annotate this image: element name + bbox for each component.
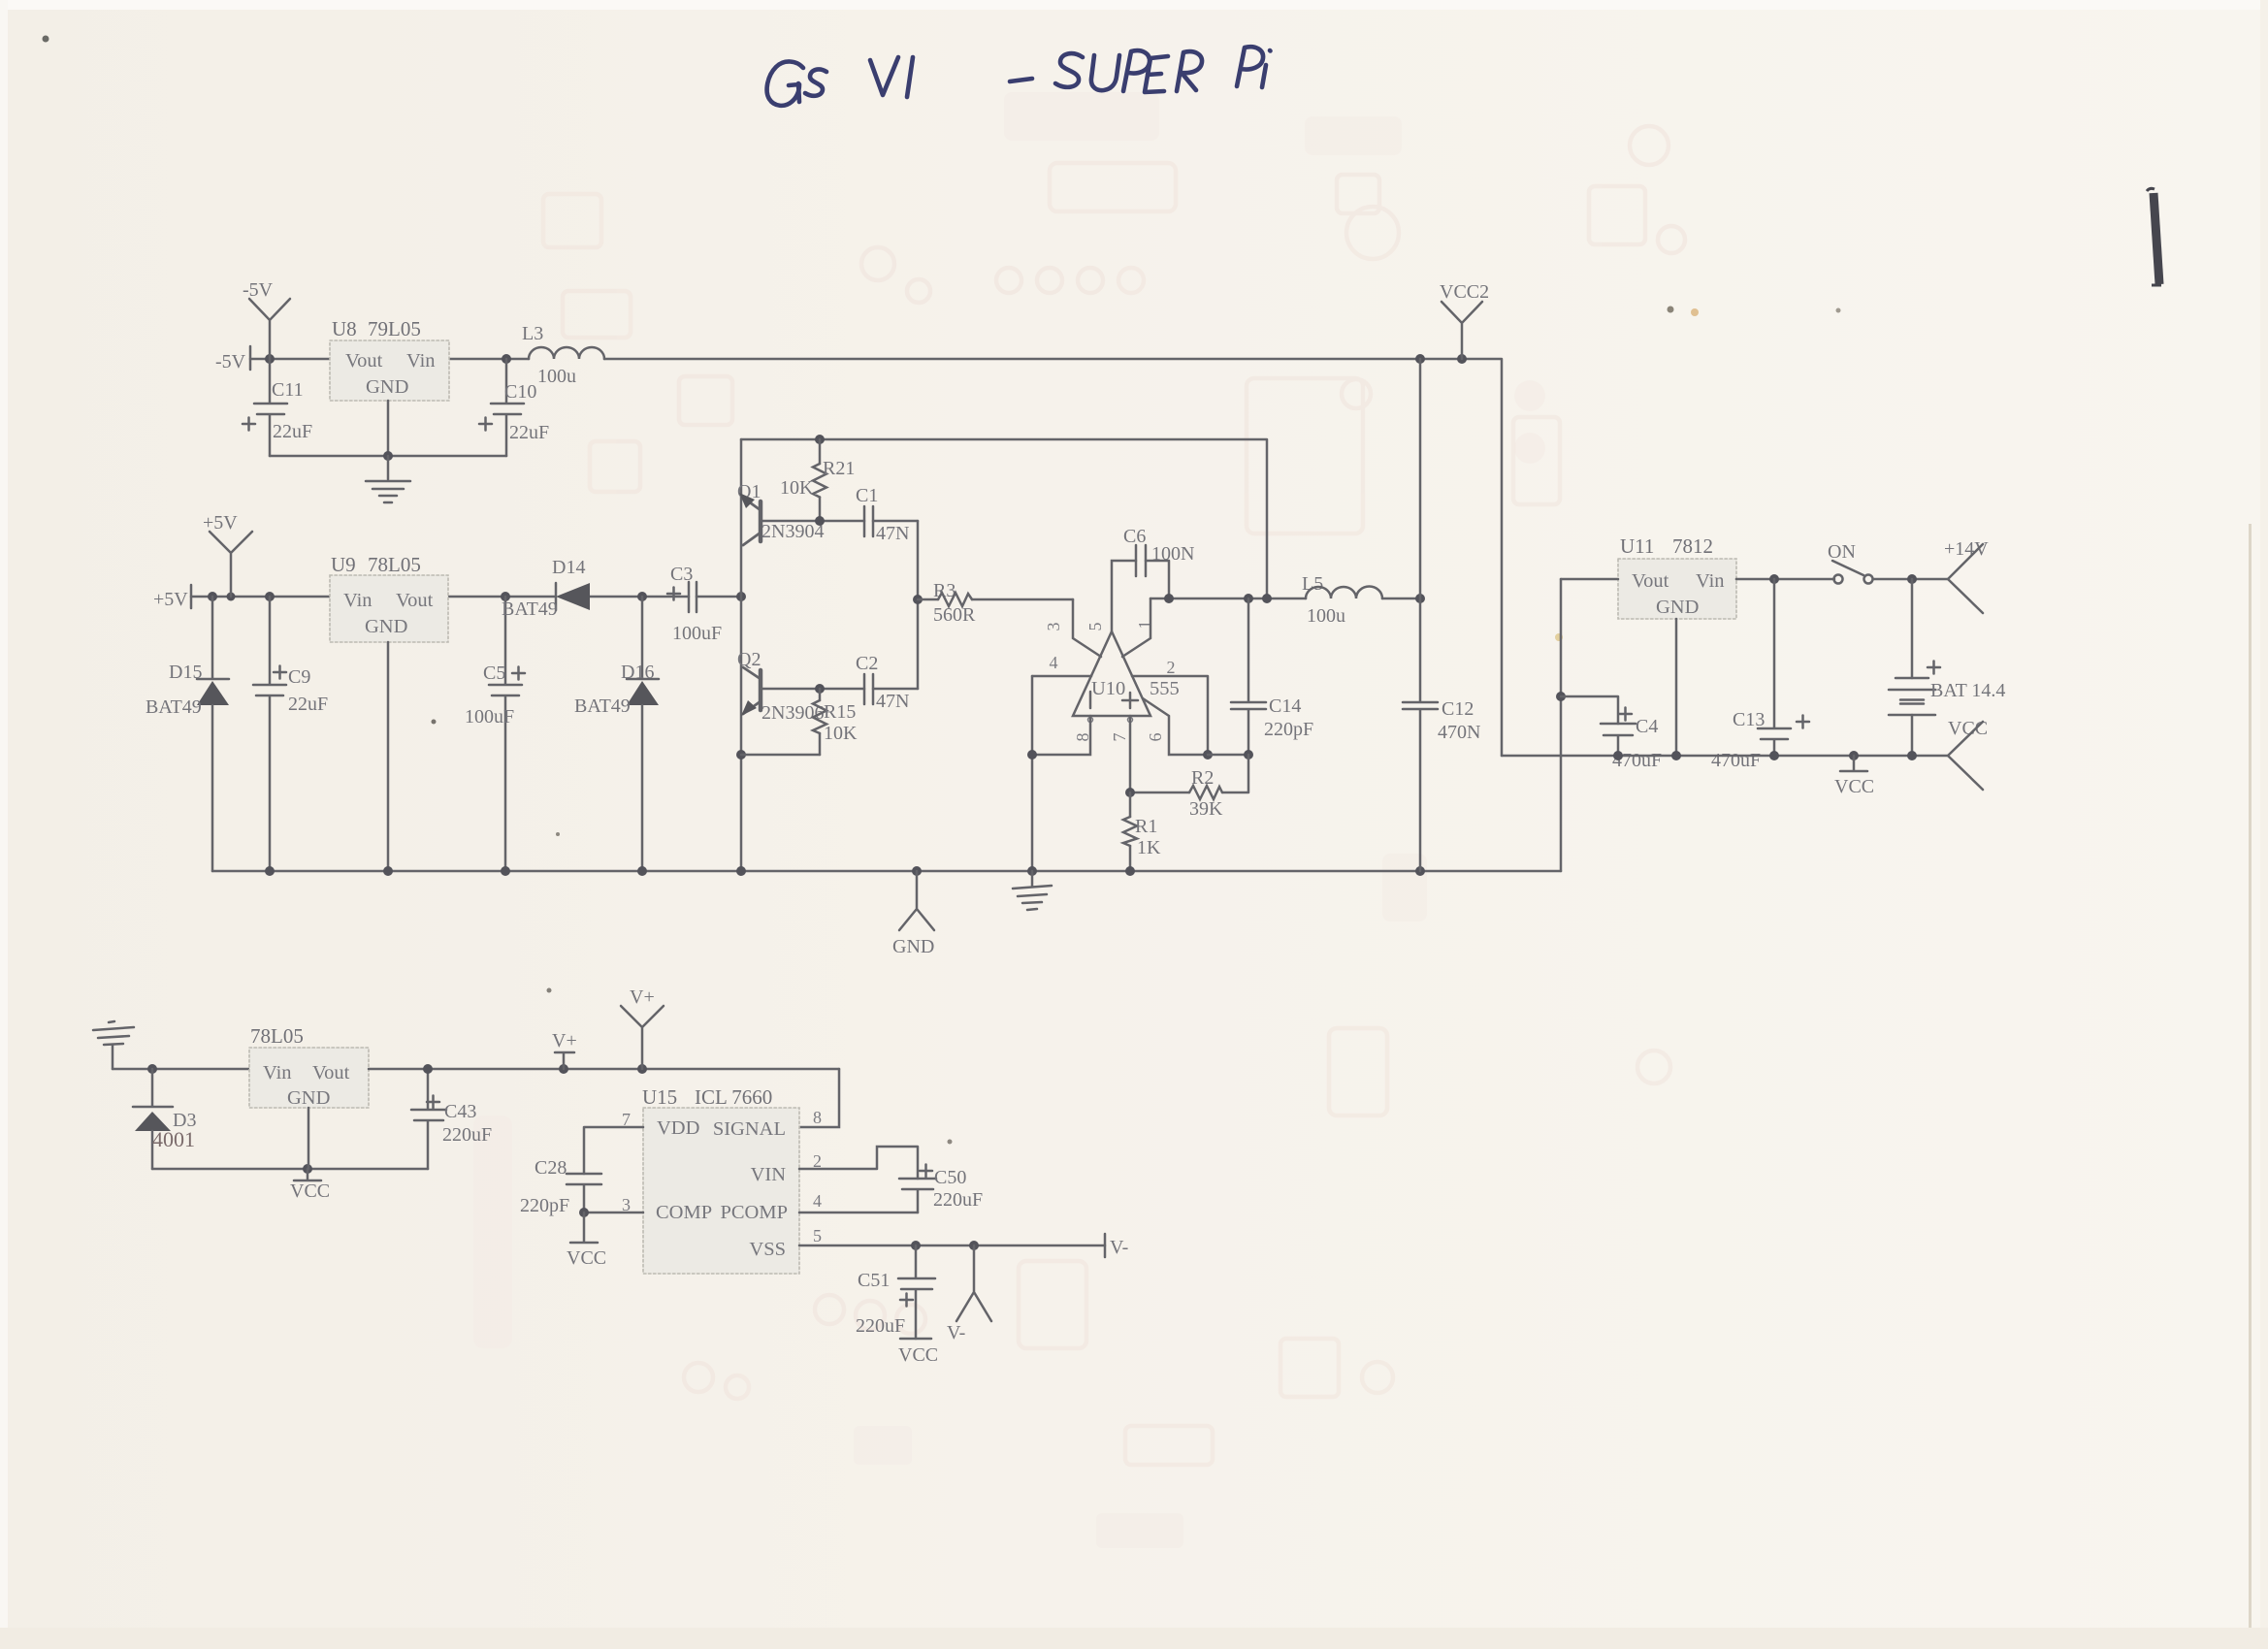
- svg-text:U8: U8: [332, 317, 357, 340]
- capacitor C50 220uF: [899, 1165, 983, 1213]
- svg-text:GND: GND: [1656, 597, 1699, 618]
- capacitor C6 100N: [1123, 526, 1194, 576]
- svg-text:U9: U9: [331, 553, 356, 576]
- svg-text:-5V: -5V: [243, 279, 274, 301]
- regulator 78L05 (charger section): [249, 1024, 369, 1109]
- wire timing node row: [1208, 750, 1253, 760]
- svg-text:Vin: Vin: [343, 590, 373, 611]
- svg-text:100uF: 100uF: [465, 706, 514, 727]
- inductor L3 100u: [522, 323, 604, 387]
- capacitor C14 220pF: [1231, 598, 1313, 755]
- regulator U9 78L05: [330, 553, 448, 642]
- wire 78L05 ground return row: [152, 1164, 428, 1174]
- svg-text:3: 3: [1044, 623, 1063, 631]
- svg-text:VCC: VCC: [898, 1344, 938, 1366]
- svg-text:SIGNAL: SIGNAL: [713, 1118, 786, 1140]
- wire 555 pin 3 lead: [1073, 599, 1101, 657]
- svg-text:22uF: 22uF: [288, 694, 328, 715]
- wire switch to +14V node: [1873, 574, 1948, 584]
- transistor Q2 2N3906: [737, 649, 824, 724]
- svg-text:C4: C4: [1636, 716, 1658, 737]
- svg-text:BAT49: BAT49: [146, 696, 202, 718]
- wire U11 Vin row to switch: [1736, 574, 1834, 584]
- svg-text:BAT49: BAT49: [502, 598, 558, 620]
- svg-text:C28: C28: [535, 1157, 567, 1179]
- resistor R3 560R: [918, 580, 1073, 626]
- wire VCC2 riser to L5 junction: [1419, 359, 1422, 598]
- wire main ground bus: [212, 866, 1561, 876]
- svg-text:555: 555: [1150, 678, 1180, 699]
- wire U9 GND pin to bus: [387, 642, 390, 871]
- wire U15 pin 2 VIN lead with jog: [799, 1147, 918, 1179]
- svg-text:Vin: Vin: [263, 1062, 292, 1083]
- svg-text:220uF: 220uF: [856, 1315, 905, 1337]
- wire VCC rail (7812 output common): [1502, 751, 1948, 760]
- svg-text:4001: 4001: [152, 1127, 195, 1151]
- svg-text:C13: C13: [1733, 709, 1765, 730]
- capacitor C4 470uF: [1601, 708, 1662, 772]
- svg-text:5: 5: [1085, 623, 1105, 631]
- resistor R21 10K: [780, 439, 855, 521]
- capacitor C43 220uF: [411, 1069, 492, 1169]
- svg-text:Vout: Vout: [396, 590, 434, 611]
- wire C1/C2 junction column: [913, 521, 923, 689]
- ground below U8: [366, 456, 410, 502]
- svg-text:VSS: VSS: [749, 1239, 786, 1260]
- transistor Q1 2N3904: [737, 481, 824, 545]
- capacitor C9 22uF: [253, 597, 328, 871]
- svg-text:VCC: VCC: [567, 1247, 606, 1269]
- svg-text:C3: C3: [670, 564, 693, 585]
- svg-text:5: 5: [813, 1226, 822, 1245]
- regulator U8 79L05: [330, 317, 449, 401]
- svg-text:6: 6: [1146, 733, 1165, 742]
- svg-text:560R: 560R: [933, 604, 976, 626]
- svg-text:470N: 470N: [1438, 722, 1480, 743]
- wire U15 pin 5 VSS lead: [799, 1241, 1105, 1250]
- capacitor C10 22uF: [479, 359, 549, 456]
- node V+ net label tick: [552, 1030, 577, 1069]
- power +14V antenna: [1944, 538, 1989, 613]
- wire V+ rail: [369, 1064, 839, 1074]
- svg-text:GND: GND: [365, 616, 407, 637]
- svg-text:BAT 14.4: BAT 14.4: [1930, 680, 2005, 701]
- svg-text:BAT49: BAT49: [574, 695, 631, 717]
- handwritten title GS V1 - SUPER Pi: [767, 47, 1271, 106]
- svg-text:10K: 10K: [780, 477, 814, 499]
- svg-text:R1: R1: [1135, 816, 1157, 837]
- svg-text:C9: C9: [288, 666, 310, 688]
- wire U15 pin 3 lead: [579, 1208, 643, 1217]
- svg-text:220pF: 220pF: [520, 1195, 569, 1216]
- svg-text:Vin: Vin: [1696, 570, 1725, 592]
- svg-text:C1: C1: [856, 485, 878, 506]
- capacitor C11 22uF: [243, 359, 312, 456]
- power VCC antenna (right): [1948, 718, 1988, 790]
- capacitor C3 100uF: [667, 564, 722, 644]
- svg-text:470uF: 470uF: [1711, 750, 1761, 771]
- wire 555 pin 5 lead: [1112, 561, 1136, 631]
- svg-text:C2: C2: [856, 653, 878, 674]
- svg-text:78L05: 78L05: [368, 553, 421, 576]
- svg-text:+14V: +14V: [1944, 538, 1989, 560]
- svg-text:100uF: 100uF: [672, 623, 722, 644]
- switch ON: [1828, 541, 1873, 584]
- svg-text:C11: C11: [272, 379, 304, 401]
- U10 pin numbers: [1044, 621, 1176, 742]
- svg-text:C50: C50: [934, 1167, 966, 1188]
- diode D16 BAT49: [574, 597, 659, 871]
- wire R15 return to emitter column: [741, 754, 820, 757]
- power +5V antenna: [203, 512, 252, 597]
- svg-text:47N: 47N: [876, 691, 909, 712]
- wire 78L05 GND pin: [308, 1108, 310, 1169]
- svg-text:+5V: +5V: [153, 589, 188, 610]
- svg-text:-5V: -5V: [215, 351, 246, 372]
- svg-text:COMP: COMP: [656, 1202, 712, 1223]
- capacitor C13 470uF: [1711, 579, 1809, 771]
- node +5V net label tick: [153, 585, 191, 610]
- diode D15 BAT49: [146, 597, 229, 871]
- power V- antenna (downward): [947, 1245, 991, 1343]
- capacitor C28 220pF: [520, 1157, 601, 1216]
- svg-text:U11: U11: [1620, 534, 1654, 558]
- resistor R15 10K: [813, 689, 858, 755]
- svg-text:C51: C51: [858, 1270, 890, 1291]
- svg-text:ICL 7660: ICL 7660: [695, 1085, 772, 1109]
- node VCC tap (C51): [898, 1339, 938, 1366]
- svg-text:1K: 1K: [1137, 837, 1161, 858]
- svg-text:GND: GND: [287, 1087, 330, 1109]
- svg-text:39K: 39K: [1189, 798, 1223, 820]
- svg-text:79L05: 79L05: [368, 317, 421, 340]
- svg-text:Vout: Vout: [345, 350, 383, 372]
- wire Q1/Q2 emitter-collector column: [736, 439, 746, 871]
- svg-text:22uF: 22uF: [273, 421, 312, 442]
- power V+ antenna: [621, 986, 664, 1069]
- svg-text:D15: D15: [169, 662, 202, 683]
- capacitor C5 100uF: [465, 597, 525, 871]
- node VCC tap (C28): [567, 1212, 606, 1269]
- wire 555 pin 4 lead: [1032, 675, 1091, 678]
- node V- net label tick: [1105, 1234, 1128, 1258]
- wire -5V top rail to VCC2: [250, 354, 1502, 756]
- wire U15 pin 8 SIGNAL lead: [799, 1069, 839, 1127]
- svg-text:Q2: Q2: [737, 649, 761, 670]
- svg-text:7812: 7812: [1672, 534, 1713, 558]
- svg-text:D16: D16: [621, 662, 654, 683]
- svg-text:220uF: 220uF: [933, 1189, 983, 1211]
- wire top loop of astable (y=453): [741, 435, 1267, 598]
- svg-text:7: 7: [1110, 733, 1129, 742]
- wire +5V rail: [191, 592, 746, 601]
- wire 555 pin 6 lead: [1143, 698, 1213, 760]
- ground (earth, top of 78L05 section): [93, 1021, 134, 1069]
- converter U15 ICL 7660: [642, 1085, 799, 1274]
- svg-text:U15: U15: [642, 1085, 677, 1109]
- wire 555 pin 1 lead / C6 return: [1122, 561, 1169, 657]
- svg-text:GND: GND: [892, 936, 934, 957]
- svg-text:4: 4: [1050, 653, 1058, 672]
- wire Q1 base row / capacitor C1 node: [761, 516, 918, 526]
- svg-text:VDD: VDD: [657, 1117, 699, 1139]
- battery BAT 14.4: [1889, 579, 2005, 756]
- regulator U11 7812: [1618, 534, 1736, 619]
- power VCC2 antenna: [1440, 281, 1489, 359]
- svg-text:PCOMP: PCOMP: [720, 1202, 788, 1223]
- capacitor C1 47N: [856, 485, 909, 544]
- wire U11 GND pin: [1675, 619, 1678, 756]
- power GND antenna: [892, 871, 934, 957]
- wire U8 ground return: [270, 401, 506, 461]
- wire 555 pin 7 lead: [1129, 716, 1132, 792]
- svg-text:D14: D14: [552, 557, 585, 578]
- paper specks: [43, 36, 1841, 1145]
- svg-text:4: 4: [813, 1191, 822, 1211]
- svg-text:100u: 100u: [1307, 605, 1345, 627]
- wire 555 pin 8 lead: [1032, 716, 1090, 755]
- svg-text:220pF: 220pF: [1264, 719, 1313, 740]
- resistor R2 39K: [1125, 755, 1248, 820]
- node VCC tap (below rail): [1834, 756, 1874, 797]
- svg-text:Vin: Vin: [406, 350, 436, 372]
- svg-text:V-: V-: [947, 1322, 965, 1343]
- node -5V net label tick: [215, 346, 250, 372]
- power -5V antenna: [243, 279, 290, 359]
- svg-text:R21: R21: [823, 458, 855, 479]
- svg-text:220uF: 220uF: [442, 1124, 492, 1146]
- svg-text:C6: C6: [1123, 526, 1146, 547]
- diode D3 4001: [133, 1069, 196, 1169]
- svg-text:10K: 10K: [824, 723, 858, 744]
- wire Vout column of U11 to bus: [1556, 579, 1566, 871]
- svg-text:R2: R2: [1191, 767, 1214, 789]
- svg-text:Vout: Vout: [1632, 570, 1669, 592]
- node VCC tap (charger): [290, 1169, 330, 1202]
- svg-text:8: 8: [813, 1108, 822, 1127]
- svg-text:C14: C14: [1269, 695, 1301, 717]
- svg-text:VCC2: VCC2: [1440, 281, 1489, 303]
- resistor R1 1K: [1123, 792, 1161, 871]
- svg-text:GND: GND: [366, 376, 408, 398]
- diode D14 BAT49: [502, 557, 590, 620]
- wire 78L05 input row: [113, 1064, 249, 1074]
- wire pin4/pin8 ground column: [1027, 676, 1037, 871]
- wire 555 pin 2 lead: [1132, 676, 1208, 755]
- svg-text:V+: V+: [552, 1030, 577, 1051]
- svg-text:100u: 100u: [537, 366, 576, 387]
- wire U15 pin 7 lead: [584, 1127, 643, 1174]
- svg-text:VCC: VCC: [290, 1180, 330, 1202]
- U15 pin numbers: [622, 1108, 822, 1245]
- svg-text:R15: R15: [824, 701, 856, 723]
- svg-text:2N3904: 2N3904: [761, 521, 824, 542]
- svg-text:78L05: 78L05: [250, 1024, 304, 1048]
- svg-text:VCC: VCC: [1834, 776, 1874, 797]
- svg-text:U10: U10: [1091, 678, 1125, 699]
- svg-text:VIN: VIN: [751, 1164, 787, 1185]
- svg-text:C10: C10: [504, 381, 536, 403]
- svg-text:+5V: +5V: [203, 512, 238, 533]
- svg-text:C12: C12: [1442, 698, 1474, 720]
- svg-text:22uF: 22uF: [509, 422, 549, 443]
- svg-text:C5: C5: [483, 663, 505, 684]
- svg-text:L3: L3: [522, 323, 543, 344]
- svg-text:C43: C43: [444, 1101, 476, 1122]
- wire U11 Vout lead: [1561, 578, 1618, 581]
- capacitor C2 47N: [856, 653, 909, 712]
- svg-text:2: 2: [1167, 658, 1176, 677]
- inductor L5 100u: [1302, 573, 1382, 627]
- svg-text:V-: V-: [1110, 1237, 1128, 1258]
- svg-text:L5: L5: [1302, 573, 1323, 595]
- wire Q2 base row / capacitor C2 node: [761, 684, 918, 694]
- svg-text:Vout: Vout: [312, 1062, 350, 1083]
- wire U15 pin 4 PCOMP lead: [799, 1212, 918, 1214]
- capacitor C51 220uF: [856, 1245, 935, 1339]
- ground hatched (555 pin1 area): [1013, 871, 1052, 910]
- svg-text:V+: V+: [630, 986, 655, 1008]
- capacitor C12 470N: [1403, 598, 1480, 871]
- wire 555 output row (R3 node to L5): [1150, 594, 1425, 603]
- op-amp U10 555 (triangle): [1073, 631, 1180, 716]
- svg-text:47N: 47N: [876, 523, 909, 544]
- svg-text:ON: ON: [1828, 541, 1856, 563]
- faint bleed-through ghosts of PCB layout: [543, 126, 1685, 1465]
- scan artifact dark stroke (top right): [2147, 188, 2161, 285]
- wire C4 tap: [1561, 696, 1618, 724]
